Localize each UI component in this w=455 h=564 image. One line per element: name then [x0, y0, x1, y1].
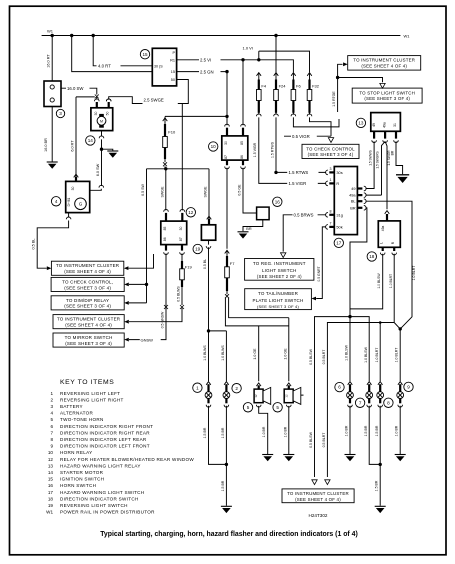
svg-text:1: 1	[196, 385, 199, 390]
svg-text:(SEE SHEET 4 OF 4): (SEE SHEET 4 OF 4)	[295, 497, 341, 502]
svg-text:1.0 BLRT: 1.0 BLRT	[375, 347, 379, 363]
svg-text:2.5 SWGE: 2.5 SWGE	[144, 98, 164, 103]
svg-text:19: 19	[48, 503, 54, 508]
svg-text:0.5 BL: 0.5 BL	[32, 239, 36, 250]
svg-text:POWER RAIL IN POWER DISTRIBUTO: POWER RAIL IN POWER DISTRIBUTOR	[60, 510, 155, 515]
svg-text:(SEE SHEET 3 OF 4): (SEE SHEET 3 OF 4)	[257, 304, 299, 309]
svg-text:1.5 BR: 1.5 BR	[203, 427, 207, 438]
svg-text:14: 14	[88, 138, 94, 143]
svg-text:5: 5	[50, 417, 53, 422]
svg-text:16.0 BR: 16.0 BR	[44, 138, 48, 152]
svg-text:8: 8	[50, 437, 53, 442]
svg-text:6.0 SW: 6.0 SW	[96, 163, 100, 176]
svg-text:W1: W1	[404, 33, 411, 38]
svg-text:F10: F10	[168, 130, 176, 135]
svg-text:17: 17	[48, 490, 54, 495]
svg-text:3: 3	[50, 404, 53, 409]
svg-text:18: 18	[369, 254, 375, 259]
svg-text:16: 16	[48, 483, 54, 488]
svg-text:F24: F24	[279, 84, 287, 89]
svg-text:M: M	[100, 119, 103, 123]
svg-text:BR: BR	[246, 227, 252, 231]
svg-text:REVERSING LIGHT RIGHT: REVERSING LIGHT RIGHT	[60, 397, 124, 402]
svg-text:KEY TO ITEMS: KEY TO ITEMS	[60, 379, 114, 386]
svg-text:87: 87	[179, 237, 183, 241]
svg-text:1.5 SWGRS: 1.5 SWGRS	[376, 151, 380, 168]
svg-text:6: 6	[338, 385, 341, 390]
svg-text:5: 5	[247, 405, 250, 410]
svg-text:0.5 GNSW: 0.5 GNSW	[160, 311, 164, 328]
svg-text:15: 15	[48, 477, 54, 482]
svg-text:HORN SWITCH: HORN SWITCH	[60, 483, 96, 488]
svg-text:DIRECTION INDICATOR SWITCH: DIRECTION INDICATOR SWITCH	[60, 496, 139, 501]
svg-text:1.0 BLRT: 1.0 BLRT	[395, 347, 399, 363]
svg-text:86: 86	[163, 237, 167, 241]
svg-text:12: 12	[284, 394, 288, 398]
svg-text:10: 10	[211, 144, 217, 149]
svg-text:ALTERNATOR: ALTERNATOR	[60, 411, 94, 416]
svg-text:1.5 BR: 1.5 BR	[375, 425, 379, 436]
svg-text:TO INSTRUMENT CLUSTER: TO INSTRUMENT CLUSTER	[57, 317, 121, 322]
svg-text:10: 10	[48, 450, 54, 455]
svg-text:L: L	[380, 242, 384, 244]
svg-text:0.5 BLRT: 0.5 BLRT	[322, 349, 326, 365]
svg-text:HAZARD WARNING LIGHT SWITCH: HAZARD WARNING LIGHT SWITCH	[60, 490, 144, 495]
svg-text:REVERSING LIGHT LEFT: REVERSING LIGHT LEFT	[60, 391, 120, 396]
svg-text:1.0 BLSW: 1.0 BLSW	[344, 344, 348, 360]
svg-text:(SEE SHEET 2 OF 4): (SEE SHEET 2 OF 4)	[257, 274, 302, 279]
svg-text:49a: 49a	[381, 226, 385, 232]
svg-text:12: 12	[254, 394, 258, 398]
svg-text:1.0 BLSW: 1.0 BLSW	[377, 273, 381, 289]
svg-text:SWGE: SWGE	[160, 186, 164, 198]
svg-text:31: 31	[393, 123, 397, 127]
svg-text:0.5 BLWS: 0.5 BLWS	[176, 286, 180, 302]
svg-text:19: 19	[195, 247, 201, 252]
svg-text:Typical starting, charging, ho: Typical starting, charging, horn, hazard…	[100, 531, 358, 538]
svg-text:DIRECTION INDICATOR RIGHT REAR: DIRECTION INDICATOR RIGHT REAR	[60, 430, 150, 435]
svg-text:TO CHECK CONTROL: TO CHECK CONTROL	[306, 146, 355, 151]
svg-text:18: 18	[48, 496, 54, 501]
svg-text:HORN RELAY: HORN RELAY	[60, 450, 93, 455]
svg-text:1.0 BLRT: 1.0 BLRT	[389, 274, 393, 288]
svg-text:12: 12	[188, 210, 194, 215]
svg-text:1.5 BR: 1.5 BR	[221, 480, 225, 491]
svg-text:SWGE: SWGE	[204, 186, 208, 198]
svg-text:0.5 BLRT: 0.5 BLRT	[322, 432, 326, 448]
svg-text:3: 3	[59, 111, 62, 116]
svg-text:0.5 SW: 0.5 SW	[141, 184, 145, 196]
svg-text:DIRECTION INDICATOR LEFT FRONT: DIRECTION INDICATOR LEFT FRONT	[60, 444, 150, 449]
svg-text:31g: 31g	[336, 212, 343, 217]
svg-text:R1: R1	[170, 58, 175, 62]
svg-text:9: 9	[50, 444, 53, 449]
svg-text:49: 49	[372, 123, 376, 127]
svg-text:87: 87	[224, 155, 228, 159]
svg-text:TO INSTRUMENT CLUSTER: TO INSTRUMENT CLUSTER	[56, 263, 120, 268]
svg-text:1.0 BLSW: 1.0 BLSW	[364, 346, 368, 362]
svg-text:DIRECTION INDICATOR LEFT REAR: DIRECTION INDICATOR LEFT REAR	[60, 437, 147, 442]
svg-text:1.0 GE: 1.0 GE	[253, 348, 257, 360]
svg-text:PLATE LIGHT SWITCH: PLATE LIGHT SWITCH	[253, 298, 304, 303]
svg-text:1.0 BR: 1.0 BR	[283, 426, 287, 437]
svg-text:1.0 BR: 1.0 BR	[262, 426, 266, 437]
svg-text:(SEE SHEET 4 OF 4): (SEE SHEET 4 OF 4)	[65, 323, 112, 328]
svg-text:F4: F4	[261, 84, 266, 89]
svg-text:TO MIRROR SWITCH: TO MIRROR SWITCH	[65, 335, 113, 340]
svg-text:0.5 BRWS: 0.5 BRWS	[294, 213, 314, 218]
svg-text:TO REG. INSTRUMENT: TO REG. INSTRUMENT	[253, 261, 306, 266]
svg-text:HAZARD WARNING LIGHT RELAY: HAZARD WARNING LIGHT RELAY	[60, 463, 141, 468]
svg-text:G: G	[79, 202, 83, 207]
svg-text:TWO-TONE HORN: TWO-TONE HORN	[60, 417, 104, 422]
svg-text:1.5 SWWS: 1.5 SWWS	[368, 150, 372, 166]
svg-text:13: 13	[48, 463, 54, 468]
svg-text:DIRECTION INDICATOR RIGHT FRON: DIRECTION INDICATOR RIGHT FRONT	[60, 424, 153, 429]
svg-text:7: 7	[50, 430, 53, 435]
svg-text:LIGHT SWITCH: LIGHT SWITCH	[262, 268, 297, 273]
svg-text:1.5 RTGE: 1.5 RTGE	[332, 91, 336, 107]
svg-text:14: 14	[48, 470, 54, 475]
svg-text:0.5 BLSW: 0.5 BLSW	[309, 431, 313, 447]
svg-text:BL: BL	[351, 199, 357, 204]
svg-text:D+/61: D+/61	[67, 197, 71, 206]
svg-text:49a: 49a	[383, 122, 387, 128]
svg-text:F6: F6	[296, 84, 301, 89]
svg-text:TO CHECK CONTROL,: TO CHECK CONTROL,	[62, 279, 113, 284]
svg-text:(SEE SHEET 4 OF 4): (SEE SHEET 4 OF 4)	[64, 269, 111, 274]
svg-text:0.5 BLSW: 0.5 BLSW	[309, 348, 313, 364]
svg-text:1: 1	[50, 391, 53, 396]
svg-text:15: 15	[171, 70, 175, 74]
svg-text:1.5 RTWS: 1.5 RTWS	[289, 170, 309, 175]
svg-text:TO TAIL/NUMBER: TO TAIL/NUMBER	[258, 291, 299, 296]
svg-text:1.5 SWGR: 1.5 SWGR	[387, 150, 391, 166]
svg-text:7: 7	[330, 222, 332, 226]
svg-text:F7: F7	[230, 261, 235, 266]
svg-text:9: 9	[407, 385, 410, 390]
svg-text:STARTER MOTOR: STARTER MOTOR	[60, 470, 104, 475]
svg-text:5: 5	[276, 405, 279, 410]
svg-text:6: 6	[50, 424, 53, 429]
svg-text:1.0 BR: 1.0 BR	[395, 425, 399, 436]
svg-text:(SEE SHEET 3 OF 4): (SEE SHEET 3 OF 4)	[65, 341, 112, 346]
svg-text:6.0 RT: 6.0 RT	[70, 140, 74, 152]
svg-text:12: 12	[48, 457, 54, 462]
svg-text:50k: 50k	[336, 224, 342, 229]
svg-text:1.5 BR: 1.5 BR	[221, 427, 225, 438]
svg-text:1.5 RTWS: 1.5 RTWS	[270, 141, 274, 158]
svg-text:86: 86	[240, 155, 244, 159]
svg-text:1.5 BR: 1.5 BR	[364, 425, 368, 436]
svg-text:IGNITION SWITCH: IGNITION SWITCH	[60, 477, 104, 482]
svg-text:1.0 BLRT: 1.0 BLRT	[412, 265, 416, 281]
svg-text:85: 85	[163, 227, 167, 231]
svg-text:8: 8	[330, 210, 332, 214]
svg-text:15: 15	[142, 52, 148, 57]
svg-text:0.5 GE: 0.5 GE	[237, 184, 241, 196]
svg-text:1.5 BR: 1.5 BR	[375, 480, 379, 491]
svg-text:30: 30	[94, 112, 98, 116]
svg-text:1.5 VIGR: 1.5 VIGR	[289, 181, 307, 186]
svg-text:1.5 VIGR: 1.5 VIGR	[253, 142, 257, 157]
svg-text:F19: F19	[185, 264, 193, 269]
svg-text:17: 17	[336, 241, 342, 246]
svg-text:49: 49	[351, 186, 355, 191]
svg-text:85: 85	[240, 141, 244, 145]
svg-text:H24T302: H24T302	[309, 513, 328, 518]
svg-text:F32: F32	[312, 84, 320, 89]
svg-text:7: 7	[359, 400, 362, 405]
svg-text:TO STOP LIGHT SWITCH: TO STOP LIGHT SWITCH	[359, 90, 415, 95]
svg-text:16.0 SW: 16.0 SW	[67, 86, 84, 91]
svg-text:BR: BR	[350, 205, 356, 210]
svg-text:13: 13	[358, 121, 364, 126]
svg-text:TO INSTRUMENT CLUSTER: TO INSTRUMENT CLUSTER	[287, 491, 349, 496]
svg-text:RELAY FOR HEATER BLOWER/HEATED: RELAY FOR HEATER BLOWER/HEATED REAR WIND…	[60, 457, 194, 462]
svg-text:0.5 BL: 0.5 BL	[203, 259, 207, 269]
svg-text:GNSW: GNSW	[141, 337, 154, 342]
svg-text:1.0 GE: 1.0 GE	[283, 348, 287, 360]
svg-text:2: 2	[50, 397, 53, 402]
svg-text:1.0 VI: 1.0 VI	[243, 45, 253, 50]
svg-text:(SEE SHEET 3 OF 4): (SEE SHEET 3 OF 4)	[364, 96, 410, 101]
svg-text:REVERSING LIGHT SWITCH: REVERSING LIGHT SWITCH	[60, 503, 128, 508]
svg-text:30: 30	[71, 187, 75, 191]
svg-text:W1: W1	[46, 510, 53, 515]
svg-text:1.0 BR: 1.0 BR	[345, 425, 349, 436]
svg-text:16.0 RT: 16.0 RT	[47, 54, 51, 68]
svg-text:2: 2	[235, 386, 238, 391]
svg-text:50: 50	[171, 78, 175, 82]
svg-text:(SEE SHEET 3 OF 4): (SEE SHEET 3 OF 4)	[308, 152, 354, 157]
svg-text:49a: 49a	[349, 193, 356, 198]
svg-text:16: 16	[275, 199, 281, 204]
svg-text:50: 50	[106, 112, 110, 116]
svg-text:8: 8	[387, 400, 390, 405]
svg-text:30: 30	[224, 141, 228, 145]
svg-text:(SEE SHEET 4 OF 4): (SEE SHEET 4 OF 4)	[361, 64, 407, 69]
svg-text:3: 3	[330, 167, 332, 171]
svg-text:2.5 VI: 2.5 VI	[200, 58, 211, 63]
svg-text:4: 4	[55, 199, 58, 204]
svg-text:(SEE SHEET 3 OF 4): (SEE SHEET 3 OF 4)	[64, 285, 111, 290]
svg-text:0.5 GNRT: 0.5 GNRT	[317, 266, 321, 281]
svg-text:TO DIM/DIP RELAY: TO DIM/DIP RELAY	[66, 298, 109, 303]
svg-text:0.5 VIGR: 0.5 VIGR	[292, 134, 310, 139]
svg-text:1: 1	[330, 178, 332, 182]
svg-text:2.5 GN: 2.5 GN	[200, 69, 214, 74]
svg-text:BATTERY: BATTERY	[60, 404, 83, 409]
svg-text:4: 4	[50, 411, 53, 416]
svg-text:30s: 30s	[336, 170, 342, 175]
svg-text:4.0 RT: 4.0 RT	[98, 64, 111, 69]
svg-text:1.0 BLWS: 1.0 BLWS	[203, 345, 207, 361]
svg-text:30 (S: 30 (S	[154, 64, 163, 68]
svg-text:30: 30	[179, 227, 183, 231]
svg-text:TO INSTRUMENT CLUSTER: TO INSTRUMENT CLUSTER	[353, 58, 415, 63]
svg-text:R: R	[336, 181, 339, 186]
svg-text:W1: W1	[47, 29, 54, 34]
svg-text:(SEE SHEET 3 OF 4): (SEE SHEET 3 OF 4)	[64, 304, 111, 309]
svg-text:1.0 BLWS: 1.0 BLWS	[221, 345, 225, 361]
